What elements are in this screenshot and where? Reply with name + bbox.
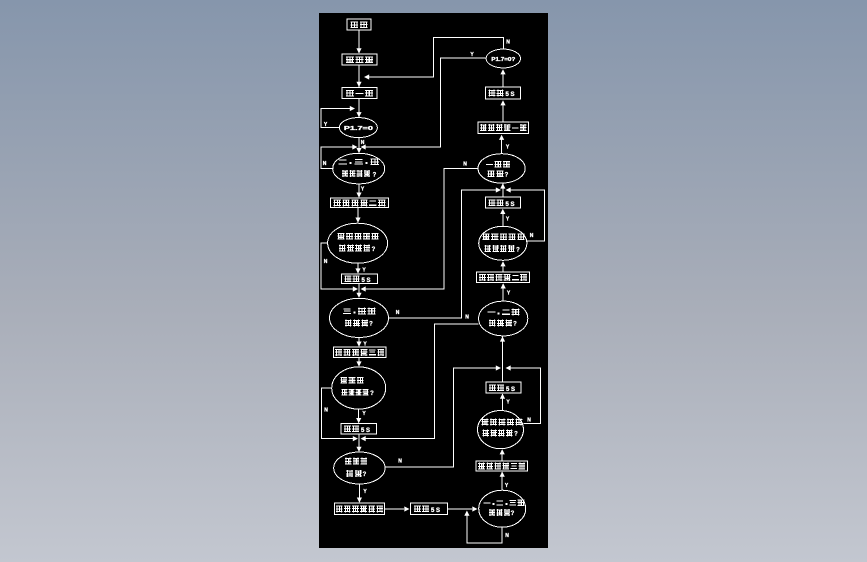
svg-text:P1.7=0?: P1.7=0? [491, 57, 515, 63]
process box: 上升到达二楼 [331, 198, 389, 208]
loop wire N of right-upper 本楼层是否 to node D [506, 187, 545, 240]
svg-text:?: ? [372, 247, 376, 253]
label Y below 停留5S right upper [506, 217, 510, 223]
label Y of P1.7=0 loop [324, 122, 328, 128]
loop wire N of 二三四楼有请求 [321, 144, 358, 168]
svg-text:?: ? [363, 472, 367, 478]
loop wire N of 一二三楼有请求 [464, 511, 502, 543]
label N of right-upper 本楼层是否 [530, 233, 534, 239]
arrow into 二三四楼有请求 [356, 148, 361, 153]
flow wire into 上升到达三楼 [356, 338, 361, 347]
flow wire 下降到达一楼→停留5S top [500, 100, 505, 122]
process box: 停留5 S (top right) [486, 87, 521, 99]
flow wire 下降到达二楼→本楼层是否请求目标 [500, 261, 505, 272]
process box: 下降到达一楼 [478, 122, 529, 134]
flow wire 开始→初始化 [356, 30, 361, 54]
svg-text:Y: Y [506, 217, 510, 223]
svg-text:?: ? [369, 322, 373, 328]
svg-text:?: ? [505, 173, 509, 179]
flow wire 一楼有请求→下降到达一楼 [499, 135, 504, 154]
svg-text:?: ? [513, 322, 517, 328]
decision ellipse: 一楼有请求? [478, 154, 525, 183]
label N of left 本楼层是否 [324, 259, 328, 265]
label Y below 三四楼有请求 [363, 342, 367, 348]
label N of 一楼有请求 [463, 162, 467, 168]
label N of 四楼有请求 [398, 459, 402, 465]
flow wire into 停留5S (left upper) [355, 263, 360, 273]
svg-text:5 S: 5 S [505, 202, 514, 208]
label N of 三四楼有请求 [396, 310, 400, 316]
process box: 停留5 S (right mid) [486, 382, 521, 393]
flow wire P1.7=0→二三四楼有请求 [358, 138, 360, 152]
svg-text:N: N [324, 408, 328, 414]
svg-text:?: ? [511, 511, 515, 517]
decision ellipse: 一、二、三楼有请求? [479, 490, 526, 527]
flow wire 开始到达四楼→停留5S bottom [385, 506, 410, 511]
svg-text:N: N [527, 418, 531, 424]
flow wire 一二楼有请求→下降到达二楼 [501, 283, 506, 301]
process box: 停留5 S (right upper) [486, 197, 521, 208]
svg-text:5 S: 5 S [506, 387, 515, 393]
flow wire 停留5S→一二楼有请求 through node E [500, 336, 505, 382]
label Y below 本楼层请求目标 [362, 411, 366, 417]
flow wire into 停留5S (left lower) [356, 409, 361, 423]
svg-text:P1.7=0: P1.7=0 [344, 126, 373, 132]
svg-text:N: N [398, 459, 402, 465]
black drawing canvas [319, 13, 548, 548]
svg-text:N: N [361, 140, 365, 146]
label Y above 一二三楼有请求 [505, 483, 509, 489]
process box: 停留5 S (left lower) [341, 424, 377, 435]
svg-text:N: N [324, 259, 328, 265]
loop wire N of left 本楼层是否 to node B [321, 243, 358, 291]
flow wire into 停留5S (right upper) node D [500, 209, 505, 227]
process box: 在一楼 (at floor 1) [342, 88, 377, 99]
label Y of top-right decision [470, 52, 474, 58]
merge wire from P1.7=0? N-branch into left spine [364, 38, 503, 80]
process box: 初始化 (Initialize) [342, 54, 377, 65]
svg-text:5 S: 5 S [505, 92, 514, 98]
merge wire N of 一二楼有请求 to node C [361, 324, 479, 441]
svg-text:N: N [323, 161, 327, 167]
process box: 停留5 S (bottom middle) [411, 503, 448, 515]
svg-text:5 S: 5 S [431, 508, 440, 514]
decision ellipse: 本楼层是否请求目标? (right upper) [479, 226, 527, 260]
loop wire N of 本楼层请求目标 to node C [322, 388, 359, 441]
decision ellipse: 二、三、四楼有请求? [333, 153, 385, 184]
process box: 上升到达三楼 [334, 347, 387, 358]
process box: 开始 (Start) [347, 19, 371, 30]
label N below P1.7=0 [361, 140, 365, 146]
label Y below 二三四楼有请求 [361, 187, 365, 193]
svg-text:5 S: 5 S [361, 278, 370, 284]
svg-text:Y: Y [505, 483, 509, 489]
flow wire 停留5S→四楼有请求 node C [356, 434, 361, 452]
decision ellipse: 一、二楼有请求? [479, 301, 528, 336]
flow wire into 上升到达二楼 [356, 184, 361, 198]
decision ellipse: 本楼层是否请求目标? (right lower) [478, 411, 524, 449]
loop wire N of 三四楼有请求 to node D [389, 187, 501, 318]
svg-text:N: N [505, 533, 509, 539]
svg-text:5 S: 5 S [361, 428, 370, 434]
process box: 下降到达二楼 [477, 272, 530, 283]
flow wire 停留5S→一二三楼有请求 [448, 506, 478, 511]
svg-text:?: ? [373, 172, 377, 178]
label Y below left 本楼层是否 [362, 268, 366, 274]
merge wire Y-branch of top-right decision to node A [361, 58, 487, 150]
decision ellipse: 三、四楼有请求? [330, 298, 389, 337]
label Y below 四楼有请求 [363, 489, 367, 495]
decision ellipse: 四楼有请求? [334, 452, 385, 484]
svg-text:Y: Y [361, 187, 365, 193]
svg-text:N: N [506, 40, 510, 46]
flow wire 上升到达三楼→本楼层请求目标 [356, 358, 361, 367]
label Y above 一楼有请求 [506, 145, 510, 151]
svg-text:Y: Y [470, 52, 474, 58]
flow wire 停留5S→P1.7=0? decision [500, 69, 505, 87]
process box: 开始到达四楼 [335, 503, 385, 515]
flow wire 在一楼→P1.7=0 [358, 99, 360, 118]
flow wire into 开始到达四楼 [357, 484, 362, 503]
arrow into 在一楼 [356, 82, 361, 87]
svg-text:Y: Y [507, 291, 511, 297]
loop wire Y of P1.7=0 decision [321, 106, 355, 128]
flow wire 下降到达三楼→本楼层是否请求目标 [500, 449, 505, 461]
flow wire into 停留5S (right mid) node E [500, 394, 505, 411]
flow wire 上升到达二楼→本楼层是否请求目标 [355, 208, 360, 223]
svg-text:N: N [530, 233, 534, 239]
svg-text:N: N [465, 315, 469, 321]
process box: 停留5 S (left upper) [342, 274, 378, 284]
merge wire N of 一楼有请求 to node B [361, 168, 479, 291]
label N of 本楼层请求目标 [324, 408, 328, 414]
label N of 一二楼有请求 [465, 315, 469, 321]
svg-text:Y: Y [506, 145, 510, 151]
label N of right-lower 本楼层是否 [527, 418, 531, 424]
label N of top-right decision [506, 40, 510, 46]
svg-text:?: ? [516, 247, 520, 253]
decision ellipse: P1.7=0 [339, 118, 377, 138]
label N of 二三四楼有请求 [323, 161, 327, 167]
process box: 下降到达三楼 [476, 461, 528, 471]
svg-text:Y: Y [506, 400, 510, 406]
svg-text:N: N [396, 310, 400, 316]
decision ellipse: P1.7=0? (top right) [486, 49, 520, 68]
svg-text:N: N [463, 162, 467, 168]
loop wire N of right-lower 本楼层是否 to node E [506, 365, 541, 423]
flow wire 停留5S→一楼有请求 through node D [500, 183, 505, 197]
label Y above 一二楼有请求 [507, 291, 511, 297]
label N of 一二三楼有请求 [505, 533, 509, 539]
flow wire 初始化→在一楼 [358, 65, 360, 87]
flow wire 一二三楼有请求→下降到达三楼 [500, 472, 505, 491]
decision ellipse: 本楼层请求目标? (left lower) [332, 367, 386, 409]
decision ellipse: 本楼层是否请求目标? (left) [328, 223, 388, 263]
flow wire 停留5S→三四楼有请求 node B [356, 284, 361, 298]
svg-text:?: ? [514, 432, 518, 438]
svg-text:Y: Y [363, 489, 367, 495]
svg-text:Y: Y [362, 411, 366, 417]
svg-text:Y: Y [362, 268, 366, 274]
label Y below 停留5S right mid [506, 400, 510, 406]
svg-text:?: ? [370, 391, 374, 397]
loop wire N of 四楼有请求 to node E [385, 365, 501, 467]
arrow into P1.7=0 decision [356, 112, 361, 117]
